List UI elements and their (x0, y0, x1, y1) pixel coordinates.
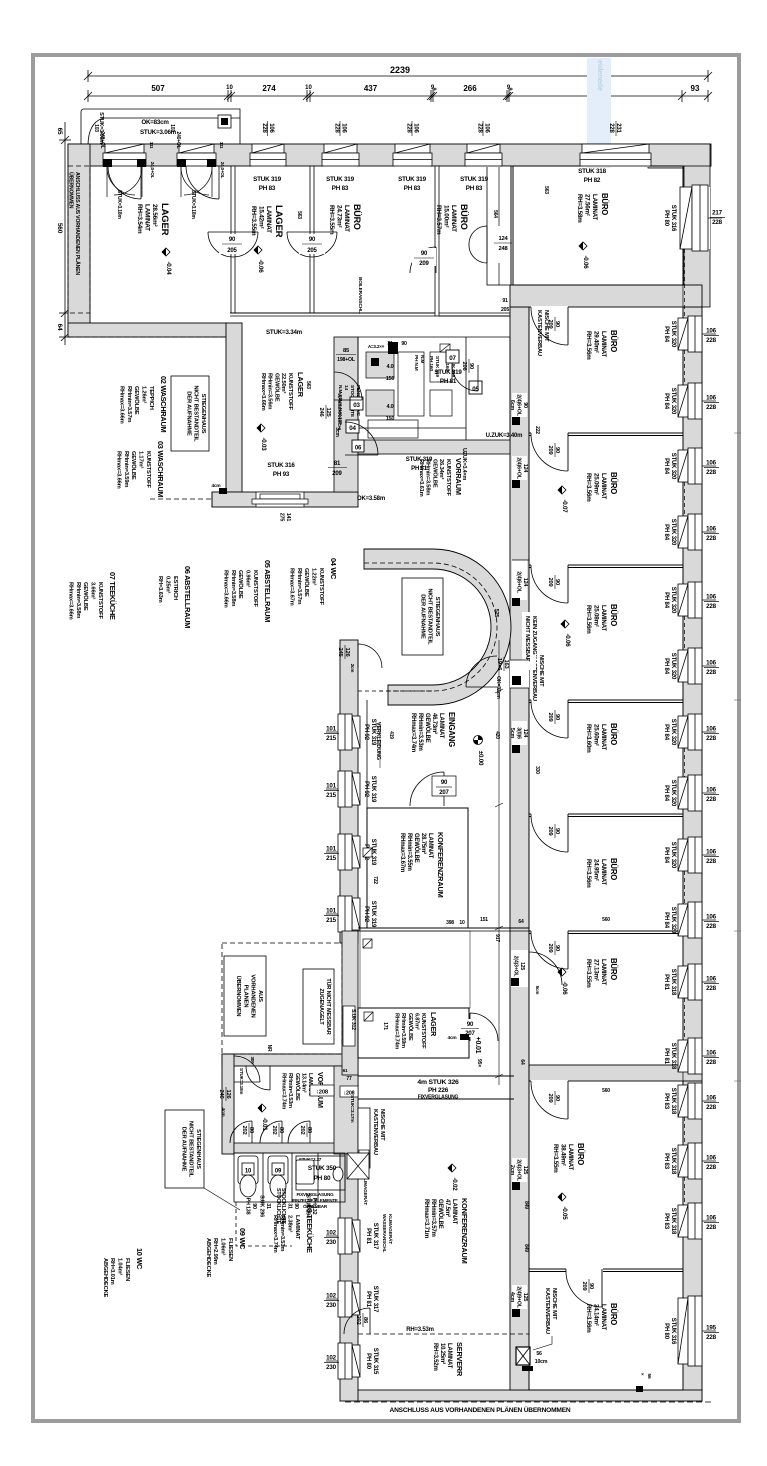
svg-text:102: 102 (326, 1230, 336, 1237)
svg-text:228: 228 (706, 1104, 716, 1111)
door 125/246 lager22 (334, 372, 362, 400)
top band divider BUERO15/corner (487, 166, 511, 285)
svg-text:64: 64 (518, 919, 524, 925)
door 81/209 (345, 422, 378, 455)
window 106/228 at y1040 (678, 1038, 719, 1074)
window 106/228 at y777 (678, 775, 719, 811)
level marker -0.03 (257, 424, 267, 451)
segment dimension chain 507/274/437/266/623/93 (84, 90, 712, 102)
window 195/228 (bottom right big) (678, 1296, 719, 1366)
svg-text:266: 266 (463, 84, 477, 93)
svg-text:02 WASCHRAUM: 02 WASCHRAUM (159, 376, 168, 432)
window 217/228 (top right big) (680, 187, 710, 249)
svg-text:KLIMAGERÄT: KLIMAGERÄT (362, 1175, 369, 1205)
thick divider R7/R8 (529, 1065, 702, 1081)
interior dim chain vertical (498, 640, 500, 1085)
svg-text:228: 228 (706, 985, 716, 992)
svg-text:5cm: 5cm (535, 986, 540, 995)
svg-text:228: 228 (706, 469, 716, 476)
svg-text:106: 106 (706, 328, 716, 335)
svg-text:215: 215 (326, 855, 336, 862)
annex east wall (334, 1066, 358, 1154)
top-right corner wall block (648, 144, 710, 168)
svg-text:228: 228 (706, 1224, 716, 1231)
svg-text:STUK 319: STUK 319 (434, 369, 462, 376)
right exterior wall (683, 144, 702, 1401)
stiegenhaus box 2 (402, 578, 443, 655)
svg-text:91: 91 (502, 298, 508, 304)
svg-text:228: 228 (706, 669, 716, 676)
svg-text:BÜRO: BÜRO (609, 472, 618, 494)
svg-text:563: 563 (305, 381, 311, 389)
annex mid wall (vorraum south) (234, 1143, 345, 1153)
svg-text:9: 9 (431, 88, 437, 91)
svg-text:-0.02: -0.02 (451, 1177, 458, 1191)
svg-text:PH 81: PH 81 (440, 378, 457, 385)
top exterior wall (68, 144, 711, 166)
window 106/228 at y1145 (678, 1143, 719, 1179)
bottom exterior wall (356, 1390, 702, 1401)
svg-text:228: 228 (706, 858, 716, 865)
svg-text:-0.06: -0.06 (257, 259, 264, 273)
left window 101/215 y836 (324, 834, 360, 870)
marks r9 bottom (636, 1386, 643, 1392)
door arc buero24 24.73 (410, 247, 436, 273)
left wall of top-left wing (68, 144, 90, 334)
waschraum inner stalls (358, 352, 466, 438)
window 106/228 at y650 (678, 648, 719, 684)
stiegenhaus box 3 (165, 1110, 204, 1188)
svg-text:PH 81: PH 81 (411, 466, 428, 472)
svg-text:437: 437 (364, 84, 378, 93)
svg-text:419: 419 (388, 731, 394, 739)
kastenverbau hatch box (347, 1153, 369, 1179)
svg-text:S.UK 312: S.UK 312 (350, 1009, 356, 1030)
svg-text:230: 230 (326, 1302, 336, 1309)
svg-text:06 ABSTELLRAUM: 06 ABSTELLRAUM (183, 566, 192, 628)
svg-text:93: 93 (691, 84, 700, 93)
svg-text:BÜRO: BÜRO (609, 604, 618, 626)
svg-text:90: 90 (467, 1022, 474, 1028)
door arc top-right room (488, 226, 510, 263)
divider konf/lager bottom (358, 927, 529, 929)
level marker -0.07 BUERO 25.09 (558, 486, 568, 513)
svg-text:849: 849 (523, 1244, 529, 1252)
svg-text:↕208: ↕208 (316, 1090, 329, 1096)
svg-text:64: 64 (56, 324, 63, 331)
svg-text:222: 222 (534, 426, 540, 434)
svg-text:4cm: 4cm (220, 1107, 226, 1116)
svg-text:FIXVERGLASUNG: FIXVERGLASUNG (297, 1192, 335, 1197)
window 106/228 at y318 (678, 316, 719, 352)
svg-text:2cm: 2cm (350, 664, 355, 673)
annex top door NR (246, 1066, 270, 1090)
svg-text:564: 564 (492, 210, 498, 218)
middle wing top wall (waschraum south) (358, 440, 510, 454)
tuer nicht messbar box (303, 969, 334, 1044)
enfilade door at divider 307 (531, 306, 568, 311)
svg-text:101: 101 (326, 783, 336, 790)
svg-text:106: 106 (706, 976, 716, 983)
bottom dashed line (345, 1401, 714, 1403)
svg-text:106: 106 (706, 660, 716, 667)
enfilade door at divider 433 (531, 432, 568, 437)
left dashed boundary box (68, 166, 90, 313)
svg-text:195: 195 (706, 1325, 716, 1332)
svg-text:106: 106 (706, 1050, 716, 1057)
wc stalls block (234, 1153, 345, 1202)
svg-text:LAGER: LAGER (296, 372, 305, 398)
svg-text:240+OL: 240+OL (175, 131, 181, 148)
svg-text:171: 171 (382, 1022, 388, 1030)
svg-text:KONFERENZRAUM: KONFERENZRAUM (436, 832, 445, 898)
svg-text:STUK=3.18m: STUK=3.18m (190, 190, 196, 219)
svg-text:215: 215 (326, 735, 336, 742)
svg-text:BÜRO: BÜRO (576, 1143, 585, 1165)
window 106/228 at y966 (678, 964, 719, 1000)
svg-text:OK=32cm: OK=32cm (495, 676, 501, 699)
svg-text:10: 10 (305, 85, 312, 91)
top french-door window 179 (177, 144, 216, 167)
level marker -0.06 BUERO 25.08 (561, 620, 571, 647)
enfilade door at divider 931 (531, 930, 568, 935)
svg-text:-0.06: -0.06 (582, 255, 589, 269)
svg-text:±0.00: ±0.00 (477, 751, 484, 766)
svg-text:+0.01: +0.01 (474, 1037, 481, 1054)
svg-text:07 TEEKÜCHE: 07 TEEKÜCHE (108, 572, 117, 620)
svg-text:309: 309 (250, 1056, 255, 1064)
svg-text:198+OL: 198+OL (337, 357, 356, 363)
svg-text:-0.03: -0.03 (260, 437, 267, 451)
s.uk 312 label (343, 1006, 355, 1046)
svg-text:917: 917 (494, 934, 500, 942)
left exterior wall of middle wing lower (340, 1065, 358, 1401)
level marker -0.01 (258, 1104, 268, 1131)
svg-text:90: 90 (229, 237, 236, 243)
enfilade door at divider 1269 (566, 1268, 603, 1273)
staircase dashed boundary (364, 563, 497, 691)
overall dimension line 2239 (84, 70, 712, 82)
svg-text:STUK 319: STUK 319 (406, 457, 433, 463)
room divider wall y=931 (529, 930, 683, 932)
room interior bottom line (529, 1389, 683, 1391)
svg-text:PH 93: PH 93 (273, 471, 290, 478)
enfilade door at divider 700 (531, 699, 568, 704)
svg-text:61: 61 (343, 1068, 348, 1073)
svg-text:205: 205 (501, 307, 509, 313)
svg-text:209: 209 (332, 471, 342, 477)
boxed 09 (272, 1163, 284, 1175)
svg-text:507: 507 (151, 84, 165, 93)
svg-text:560: 560 (56, 223, 63, 234)
top band divider LAGER15/BUERO24 (310, 166, 314, 313)
svg-text:240+OL: 240+OL (99, 131, 105, 148)
svg-text:207: 207 (439, 790, 449, 796)
svg-text:228: 228 (706, 923, 716, 930)
top french-door window 105 (103, 144, 146, 167)
top band divider LAGER28/LAGER15 (231, 166, 235, 313)
room divider wall y=814 (529, 813, 683, 815)
svg-text:STUK=3.18m: STUK=3.18m (116, 190, 122, 219)
svg-text:102: 102 (326, 1355, 336, 1362)
right wing inner face line (528, 307, 530, 1390)
svg-text:106: 106 (706, 1215, 716, 1222)
boxed 10 (242, 1163, 254, 1175)
room divider wall y=565 (529, 564, 683, 566)
svg-text:PH 226: PH 226 (428, 1087, 449, 1094)
level marker -0.05 BUERO 38.49 (558, 1193, 568, 1220)
svg-text:LAGER: LAGER (159, 203, 170, 236)
svg-text:330: 330 (534, 766, 540, 774)
svg-text:95×: 95× (476, 1059, 482, 1067)
svg-text:-0.07: -0.07 (561, 499, 568, 513)
svg-text:24,0+OL: 24,0+OL (220, 162, 225, 179)
svg-text:FIXVERGLASUNG: FIXVERGLASUNG (418, 1095, 459, 1101)
door 90/207 lager687 (470, 1013, 498, 1041)
svg-text:215: 215 (326, 792, 336, 799)
svg-text:EINGANG: EINGANG (447, 712, 456, 747)
boxed 03 (350, 397, 363, 410)
eingang dashed top (358, 690, 433, 692)
svg-text:03 WASCHRAUM: 03 WASCHRAUM (156, 441, 165, 497)
corridor door R7 y966 (511, 950, 528, 987)
svg-text:217: 217 (712, 210, 722, 217)
svg-text:-0.06: -0.06 (564, 633, 571, 647)
svg-text:24,0+OL: 24,0+OL (150, 162, 155, 179)
svg-text:231228: 231228 (608, 123, 621, 133)
door 86/202 (344, 1308, 370, 1334)
svg-text:398: 398 (446, 920, 454, 926)
top window 106/228 467 (465, 144, 502, 167)
svg-text:STUK 350: STUK 350 (308, 1165, 337, 1172)
window 106/228 at y584 (678, 582, 719, 618)
wall segment left of lager687 (342, 931, 358, 1075)
svg-text:STUK=3.17m: STUK=3.17m (349, 1095, 355, 1122)
svg-text:06: 06 (355, 446, 362, 452)
svg-text:BÜRO: BÜRO (459, 204, 469, 230)
svg-text:LAGER: LAGER (273, 205, 284, 238)
eingang stair door (466, 656, 497, 687)
annex below dashes (236, 1202, 292, 1246)
svg-text:ANSCHLUSS AUS VORHANDENEN PLÄN: ANSCHLUSS AUS VORHANDENEN PLÄNEN ÜBERNOM… (390, 1405, 571, 1414)
column hatch squares (363, 848, 373, 1021)
svg-text:09: 09 (275, 1169, 282, 1175)
svg-text:10: 10 (245, 1169, 252, 1175)
enfilade door at divider 1081 (531, 1080, 568, 1085)
top window 231/228 big (580, 144, 651, 167)
svg-text:STUK=3.18m: STUK=3.18m (239, 1068, 244, 1094)
svg-text:OK=3.58m: OK=3.58m (357, 496, 385, 502)
west wall of LAGER 22.50 (226, 323, 242, 492)
svg-text:102: 102 (326, 1293, 336, 1300)
svg-text:90: 90 (441, 780, 448, 786)
svg-text:101: 101 (326, 846, 336, 853)
corridor door label y468 (512, 456, 527, 480)
svg-text:106: 106 (706, 526, 716, 533)
lager 6.87 room box (358, 1008, 469, 1058)
svg-text:BÜRO: BÜRO (352, 204, 362, 230)
annex top wall (222, 1054, 358, 1066)
svg-text:07: 07 (449, 355, 456, 362)
svg-text:205: 205 (307, 248, 317, 254)
corridor door label y1297 (512, 1285, 527, 1309)
svg-text:BÜRO: BÜRO (609, 858, 618, 880)
svg-text:SERVERR: SERVERR (455, 1342, 464, 1377)
svg-text:4m STUK 326: 4m STUK 326 (417, 1079, 459, 1086)
svg-text:-0.05: -0.05 (561, 1206, 568, 1220)
svg-text:10: 10 (226, 85, 233, 91)
svg-text:209: 209 (419, 261, 429, 267)
doors in top-left wing (108, 166, 141, 199)
corridor door label y405 (512, 393, 527, 417)
svg-text:BÜRO: BÜRO (600, 193, 609, 215)
svg-text:103: 103 (169, 124, 175, 132)
right wing room east face (682, 166, 684, 1390)
svg-text:228: 228 (706, 404, 716, 411)
svg-text:-0.04: -0.04 (165, 261, 172, 275)
top-right room interior box (513, 166, 683, 285)
left vertical dimension chain 65/560/64 (59, 122, 71, 345)
svg-text:228: 228 (706, 1164, 716, 1171)
boxed 07 (446, 350, 459, 363)
door 90/206 (452, 365, 478, 391)
corridor door label y582 (512, 560, 527, 600)
svg-text:101: 101 (326, 908, 336, 915)
boxed 04 (346, 420, 359, 433)
staircase curved wall (364, 549, 511, 705)
svg-text:STUK=3.34m: STUK=3.34m (266, 329, 303, 336)
svg-text:PH 80: PH 80 (314, 1175, 331, 1182)
door arc lager28/15 (208, 232, 258, 257)
svg-text:106: 106 (706, 849, 716, 856)
right outer chain ticks (734, 433, 741, 1081)
svg-text:10 WC: 10 WC (135, 1248, 144, 1270)
svg-text:85: 85 (343, 348, 350, 354)
label 1208 (310, 1085, 334, 1096)
stuk 350 box (296, 1156, 345, 1190)
svg-text:05: 05 (472, 386, 479, 393)
svg-text:KONFERENZRAUM: KONFERENZRAUM (460, 1198, 469, 1264)
parapet outline with OK=83cm (81, 109, 240, 146)
dashed region aus vorhandenen (222, 943, 342, 1054)
top-right room west wall (510, 166, 512, 285)
level marker +-0.00 (474, 736, 485, 766)
svg-text:228: 228 (706, 535, 716, 542)
right wall upper wide part (684, 166, 710, 307)
konferenzraum room box (367, 808, 468, 928)
svg-text:90: 90 (401, 341, 407, 347)
svg-text:90: 90 (421, 251, 428, 257)
svg-text:111: 111 (219, 142, 224, 149)
corridor door label y1170 (512, 1158, 527, 1182)
shaft X-box at spine serverr (516, 1347, 530, 1365)
svg-text:228: 228 (706, 796, 716, 803)
svg-text:UZUK=3.4×m: UZUK=3.4×m (461, 448, 467, 481)
right wall outer face line (701, 144, 703, 1401)
svg-text:228: 228 (712, 219, 722, 226)
svg-text:563: 563 (296, 211, 302, 219)
svg-text:4.0: 4.0 (386, 364, 393, 370)
svg-text:849: 849 (523, 1201, 529, 1209)
window 141/275 in south wall (256, 492, 304, 507)
svg-text:eidenede: eidenede (596, 60, 605, 91)
svg-text:56: 56 (536, 1351, 542, 1357)
svg-text:106: 106 (706, 1095, 716, 1102)
door arc lager15/buero24 (287, 232, 337, 257)
svg-text:125246: 125246 (318, 407, 331, 417)
svg-text:10cm: 10cm (535, 1359, 548, 1365)
svg-text:LAGER: LAGER (429, 1012, 438, 1037)
level marker -0.06 lager15 (254, 246, 264, 273)
svg-text:106: 106 (706, 460, 716, 467)
thick divider below top-right room (510, 285, 702, 307)
svg-text:274: 274 (262, 84, 276, 93)
svg-text:STUK 316: STUK 316 (267, 462, 295, 469)
enfilade door at divider 565 (531, 564, 568, 569)
svg-text:228: 228 (706, 1059, 716, 1066)
level marker -0.02 (448, 1164, 458, 1191)
annex left door (234, 1056, 260, 1082)
dashed line left of lager22 (68, 336, 226, 338)
svg-text:563: 563 (543, 186, 549, 194)
svg-text:×: × (639, 1373, 645, 1376)
svg-text:205: 205 (227, 248, 237, 254)
left window 102/230 y1220 (324, 1218, 360, 1254)
stiegenhaus box 1 (171, 376, 209, 451)
top band bottom closing line (230, 312, 435, 314)
svg-text:RH=3.53m: RH=3.53m (406, 1327, 434, 1333)
svg-text:9: 9 (507, 88, 513, 91)
svg-text:05 ABSTELLRAUM: 05 ABSTELLRAUM (263, 560, 272, 622)
svg-text:560: 560 (602, 917, 610, 923)
svg-text:126246: 126246 (218, 1089, 231, 1099)
corridor spine wall (510, 307, 529, 1390)
svg-text:NR: NR (266, 1045, 272, 1052)
svg-text:150: 150 (386, 416, 395, 422)
svg-text:215: 215 (326, 917, 336, 924)
window 106/228 at y516 (678, 514, 719, 550)
wc fixtures (238, 1156, 343, 1197)
enfilade door at divider 814 (531, 813, 568, 818)
left window 101/215 y716 (324, 714, 360, 750)
boxed 06 small (352, 440, 364, 452)
svg-text:81: 81 (334, 461, 341, 467)
svg-text:BÜRO: BÜRO (609, 958, 618, 980)
annex left wall (222, 1054, 234, 1154)
buero15 bottom wall (439, 315, 510, 317)
room divider wall y=1269 (529, 1268, 683, 1270)
kein zugang label (522, 612, 536, 670)
svg-text:126245: 126245 (337, 647, 350, 657)
svg-text:106: 106 (706, 726, 716, 733)
svg-text:150: 150 (386, 376, 395, 382)
svg-text:77: 77 (346, 1076, 352, 1082)
annex doors bottom (230, 1121, 252, 1143)
svg-text:56: 56 (646, 1374, 652, 1379)
fixverglasung band (358, 1075, 514, 1077)
bottom wall of top-left wing (68, 323, 228, 337)
wall between LAGER22.50 and WC block (334, 337, 358, 492)
svg-text:106: 106 (706, 1155, 716, 1162)
corridor door label y733 (512, 721, 527, 745)
svg-text:10: 10 (459, 920, 465, 926)
left window 101/215 y898 (324, 896, 360, 932)
svg-text:90: 90 (309, 237, 316, 243)
window 106/228 at y385 (678, 383, 719, 419)
south wall of LAGER 22.50 (212, 492, 358, 507)
door 90/207 eingang (410, 772, 444, 806)
svg-text:OK=83cm: OK=83cm (141, 119, 169, 126)
